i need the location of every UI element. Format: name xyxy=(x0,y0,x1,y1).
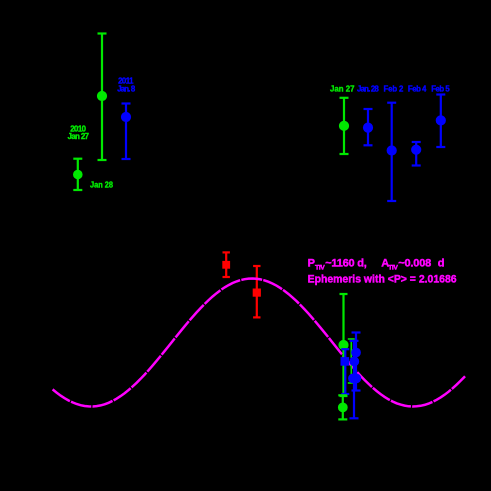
svg-text:Jan 27: Jan 27 xyxy=(68,132,89,141)
svg-text:TTV: TTV xyxy=(315,264,325,271)
svg-text:Jan. 8: Jan. 8 xyxy=(117,84,136,93)
errorbar green Jan 27 (top right) xyxy=(340,98,349,154)
errorbar green A (2010 Jan 27 tall) xyxy=(98,34,107,161)
cluster: errorbar blue G2 xyxy=(349,341,360,419)
top-right date labels xyxy=(330,84,450,93)
svg-text:P: P xyxy=(308,258,315,270)
magenta sine curve xyxy=(53,279,465,407)
svg-text:Jan. 28: Jan. 28 xyxy=(357,84,379,93)
svg-text:Feb 4: Feb 4 xyxy=(408,84,427,93)
cluster: errorbar green F thin xyxy=(348,339,355,383)
errorbar blue Feb 4 xyxy=(412,142,421,166)
svg-text:Feb 2: Feb 2 xyxy=(384,84,405,93)
cluster: errorbar blue H (square pt) xyxy=(341,349,349,394)
label blue 2011 Jan. 8 xyxy=(117,77,136,94)
errorbar blue B (2011 Jan. 8) xyxy=(122,104,131,160)
svg-text:~1160 d,: ~1160 d, xyxy=(325,258,367,270)
errorbar blue Jan. 28 xyxy=(364,109,373,145)
errorbar blue Feb 2 xyxy=(387,103,396,201)
magenta TTV text line 1 xyxy=(308,258,445,272)
errorbar green C (Jan 28) xyxy=(73,159,82,190)
svg-text:Ephemeris with <P> = 2.01686: Ephemeris with <P> = 2.01686 xyxy=(308,273,457,285)
svg-text:Feb 5: Feb 5 xyxy=(431,84,450,93)
cluster: errorbar green D xyxy=(340,294,348,396)
errorbar blue Feb 5 xyxy=(436,95,445,148)
svg-text:~0.008: ~0.008 xyxy=(398,258,431,270)
svg-text:d: d xyxy=(438,258,445,270)
errorbar red 2 xyxy=(253,266,260,317)
label green 2010 Jan 27 xyxy=(68,124,89,141)
errorbar red 1 xyxy=(223,252,230,277)
cluster: errorbar blue G1 xyxy=(352,333,361,391)
svg-text:Jan 28: Jan 28 xyxy=(90,181,114,190)
svg-text:TTV: TTV xyxy=(388,264,398,271)
svg-text:Jan 27: Jan 27 xyxy=(330,84,355,93)
cluster: errorbar green E xyxy=(338,395,347,419)
